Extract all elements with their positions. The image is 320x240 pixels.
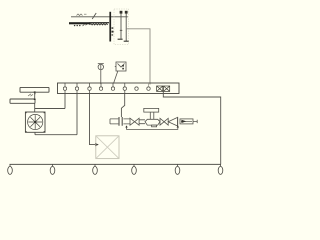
label under control unit K1 xyxy=(28,94,36,96)
gauge U1 (circle with top bar) above manifold xyxy=(98,64,104,70)
junction dot on K1 xyxy=(34,91,36,92)
damper box D1 (gray box with X) xyxy=(96,136,119,159)
wire K2 to fan box xyxy=(34,103,36,112)
wire K1 to K2 xyxy=(34,92,36,99)
valve V1 boxed-X in manifold xyxy=(157,86,163,91)
gauge G2 head xyxy=(125,11,128,14)
manifold port 7 xyxy=(135,87,138,90)
sprinkler S1 xyxy=(8,164,13,174)
gauge line G2 (vertical instrument line) xyxy=(125,13,127,41)
tick on gauge line G1 xyxy=(120,29,123,31)
fan impeller M1 xyxy=(25,112,44,132)
wire fan M1 bottom stub xyxy=(34,132,36,134)
sprinkler S5 xyxy=(175,164,180,174)
control unit K2 (rounded bar) xyxy=(10,99,35,103)
bypass arrow left xyxy=(125,125,127,127)
gauge line G1 (vertical instrument line) xyxy=(120,13,122,38)
pipe neck xyxy=(139,120,145,124)
hatch under slab F1 xyxy=(90,23,108,25)
riser pipe R1 (thick vertical) xyxy=(109,12,111,42)
dashed enclosure box around gauge lines xyxy=(114,9,129,45)
sprinkler S3 xyxy=(93,164,98,174)
sprinkler S4 xyxy=(132,164,137,174)
arrow inside flow indicator xyxy=(181,120,186,123)
junction dot on K2 xyxy=(34,99,36,100)
manifold port 1 xyxy=(63,83,66,94)
tick marks right of riser R1 xyxy=(112,27,114,29)
wire branch C: manifold port 3 to damper box xyxy=(90,94,96,145)
manifold port 6 xyxy=(123,83,126,94)
bottom bar of gauge line G1 xyxy=(118,38,123,40)
alarm check valve body ACV xyxy=(144,108,160,126)
label text above P1 xyxy=(77,14,87,16)
manifold body xyxy=(58,83,180,94)
fan unit M1 (box) xyxy=(25,112,45,132)
flange pair FL1 xyxy=(119,117,122,126)
slab F1 right thin section xyxy=(90,22,110,24)
arrowhead into damper box xyxy=(95,143,99,146)
branch pipe B1 (bottom sprinkler line) xyxy=(10,163,221,165)
bottom bar of gauge line G2 xyxy=(124,40,129,42)
manifold port 8 xyxy=(147,83,150,90)
floor slab F1 xyxy=(69,22,90,24)
manifold port 3 xyxy=(88,83,91,94)
bypass line under valve train xyxy=(127,127,178,130)
manifold port 5 xyxy=(111,83,114,90)
wire branch B: fan bottom to manifold port 2 xyxy=(35,94,77,135)
wire gauge U1 to manifold port 4 xyxy=(100,70,102,84)
gate valve GV1 (bowtie) xyxy=(130,118,139,125)
valve train pipe left segment xyxy=(110,119,118,124)
valve V2 boxed-X in manifold xyxy=(164,86,170,91)
sprinkler S2 xyxy=(50,164,55,174)
flange FL2 xyxy=(177,117,179,127)
manifold port 4 xyxy=(99,83,102,90)
sprinkler S6 xyxy=(218,164,223,174)
wire manifold V-outlet to right drop xyxy=(163,92,220,165)
small mark under slab F1 xyxy=(83,24,88,26)
pipe line P1 (ceiling feed line) xyxy=(71,16,128,18)
control unit K1 (rounded bar) xyxy=(20,87,49,92)
wire flow switch U2 to manifold port 5 xyxy=(114,71,118,84)
wire manifold port 6 drop with offset xyxy=(121,94,124,118)
gray signal wire from gauge G2 to manifold port 8 xyxy=(126,29,150,85)
gate valve GV2 (bowtie) xyxy=(160,118,168,125)
flow indicator FI (box with arrow) xyxy=(180,119,193,124)
valve train pipe segment 2 xyxy=(123,119,130,124)
manifold port 2 xyxy=(75,83,78,94)
check valve CV (taper) xyxy=(168,118,177,126)
wire branch A: stack to manifold port 1 xyxy=(35,94,65,109)
flow switch U2 (box with V) above manifold xyxy=(115,62,126,71)
dots under slab F1 xyxy=(74,25,75,26)
bypass arrow right xyxy=(177,125,179,127)
gauge G1 head xyxy=(120,11,123,14)
pipe end right xyxy=(193,120,197,123)
break mark on P1 xyxy=(92,13,96,19)
